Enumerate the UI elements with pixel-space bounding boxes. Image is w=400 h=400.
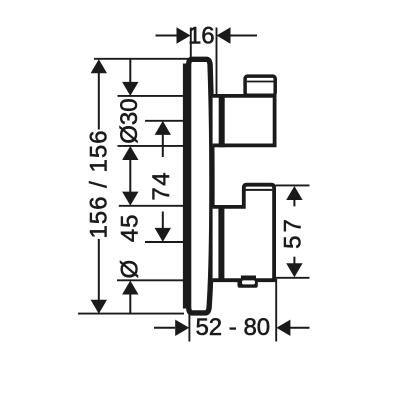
- svg-text:Ø30: Ø30: [116, 98, 143, 143]
- svg-text:16: 16: [188, 23, 215, 50]
- svg-text:Ø 45: Ø 45: [117, 213, 144, 278]
- svg-text:57: 57: [279, 216, 306, 249]
- svg-text:52 - 80: 52 - 80: [195, 314, 270, 341]
- svg-text:156 / 156: 156 / 156: [85, 129, 112, 238]
- svg-text:74: 74: [148, 171, 175, 201]
